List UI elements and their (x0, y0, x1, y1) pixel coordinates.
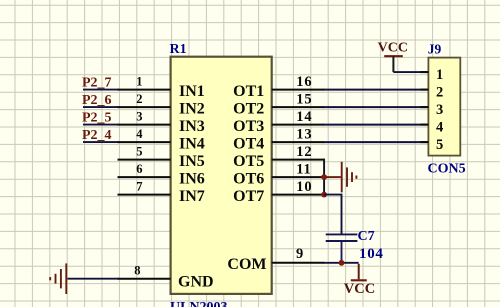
svg-text:1: 1 (136, 74, 142, 88)
pin 8 (GND) (118, 264, 214, 291)
svg-text:10: 10 (296, 179, 312, 195)
svg-text:3: 3 (136, 109, 142, 123)
junction at COM/C7 (339, 260, 345, 266)
svg-text:OT3: OT3 (233, 118, 264, 135)
svg-text:4: 4 (436, 120, 443, 136)
junction at OT7 (321, 192, 327, 198)
svg-text:OT1: OT1 (233, 83, 264, 100)
svg-text:1: 1 (436, 67, 443, 83)
pin 16 (OT1) (233, 74, 324, 100)
pin 7 (IN7) (118, 179, 205, 205)
wire COM to VCC (323, 262, 359, 264)
svg-text:14: 14 (296, 109, 312, 125)
ground symbol (left) (50, 263, 66, 294)
svg-text:6: 6 (136, 162, 142, 176)
pin 2 (IN2) (118, 92, 205, 118)
pin 10 (OT7) (233, 179, 324, 205)
svg-text:J9: J9 (428, 41, 442, 56)
svg-text:P2_6: P2_6 (82, 93, 112, 108)
svg-text:IN5: IN5 (179, 153, 205, 170)
svg-text:11: 11 (296, 162, 311, 178)
wire VCC to J9 pin 1 (393, 71, 428, 73)
svg-text:12: 12 (296, 144, 312, 160)
svg-text:P2_5: P2_5 (82, 111, 112, 126)
svg-text:3: 3 (436, 102, 443, 118)
wire net P2_4 (83, 141, 119, 143)
svg-text:13: 13 (296, 127, 312, 143)
pin 5 (IN5) (118, 144, 205, 170)
capacitor C7 (326, 234, 358, 262)
pin 4 (IN4) (118, 127, 205, 153)
IC R1 body (171, 57, 272, 294)
svg-text:C7: C7 (358, 229, 375, 244)
wire net P2_5 (83, 124, 119, 126)
wire OT4 to J9 pin 5 (323, 141, 428, 143)
pin 6 (IN6) (118, 162, 205, 188)
wire GND pin to ground (68, 278, 119, 280)
pin 1 (IN1) (118, 74, 205, 100)
svg-text:OT4: OT4 (233, 136, 264, 153)
svg-text:7: 7 (136, 179, 142, 193)
wire OT3 to J9 pin 4 (323, 124, 428, 126)
junction at OT6 (321, 174, 327, 180)
svg-text:IN7: IN7 (179, 188, 205, 205)
svg-text:16: 16 (296, 74, 312, 90)
svg-text:8: 8 (134, 264, 140, 278)
svg-text:15: 15 (296, 92, 312, 108)
svg-text:IN4: IN4 (179, 136, 205, 153)
pin 13 (OT4) (233, 127, 324, 153)
svg-text:GND: GND (178, 273, 214, 290)
svg-text:VCC: VCC (344, 281, 375, 297)
pin 3 (IN3) (118, 109, 205, 135)
wire OT1 to J9 pin 2 (323, 89, 428, 91)
J9 pin 5 stub (420, 141, 428, 143)
svg-text:2: 2 (136, 92, 142, 106)
J9 pin 2 stub (420, 89, 428, 91)
svg-text:IN1: IN1 (179, 83, 205, 100)
svg-text:VCC: VCC (378, 40, 408, 55)
svg-text:OT2: OT2 (233, 101, 264, 118)
wire OT7 to C7 (324, 195, 341, 234)
wire vertical joining OT5,OT6,OT7 (323, 159, 325, 195)
J9 pin 1 stub (420, 71, 428, 73)
svg-text:IN2: IN2 (179, 101, 205, 118)
svg-text:CON5: CON5 (428, 161, 466, 176)
svg-text:5: 5 (136, 144, 142, 158)
connector J9 body (428, 58, 460, 156)
power VCC symbol (top) (384, 56, 403, 72)
power VCC symbol (bottom) (351, 264, 367, 281)
svg-text:OT5: OT5 (233, 153, 264, 170)
svg-text:P2_4: P2_4 (82, 128, 112, 143)
pin 9 (COM) (227, 246, 324, 273)
svg-text:P2_7: P2_7 (82, 76, 112, 91)
svg-text:ULN2003: ULN2003 (170, 300, 228, 307)
svg-text:4: 4 (136, 127, 143, 141)
wire OT2 to J9 pin 3 (323, 106, 428, 108)
svg-text:OT6: OT6 (233, 171, 264, 188)
svg-text:OT7: OT7 (233, 188, 264, 205)
svg-text:COM: COM (227, 256, 266, 273)
pin 12 (OT5) (233, 144, 324, 170)
svg-text:104: 104 (359, 246, 384, 262)
svg-text:IN6: IN6 (179, 171, 205, 188)
ground symbol (right) (326, 162, 356, 193)
pin 14 (OT3) (233, 109, 324, 135)
pin 11 (OT6) (233, 162, 324, 188)
svg-text:2: 2 (436, 85, 443, 101)
svg-text:9: 9 (296, 246, 303, 262)
svg-text:5: 5 (436, 137, 443, 153)
wire net P2_7 (83, 89, 119, 91)
wire net P2_6 (83, 106, 119, 108)
J9 pin 4 stub (420, 124, 428, 126)
svg-text:R1: R1 (170, 42, 187, 57)
svg-text:IN3: IN3 (179, 118, 205, 135)
pin 15 (OT2) (233, 92, 324, 118)
J9 pin 3 stub (420, 106, 428, 108)
